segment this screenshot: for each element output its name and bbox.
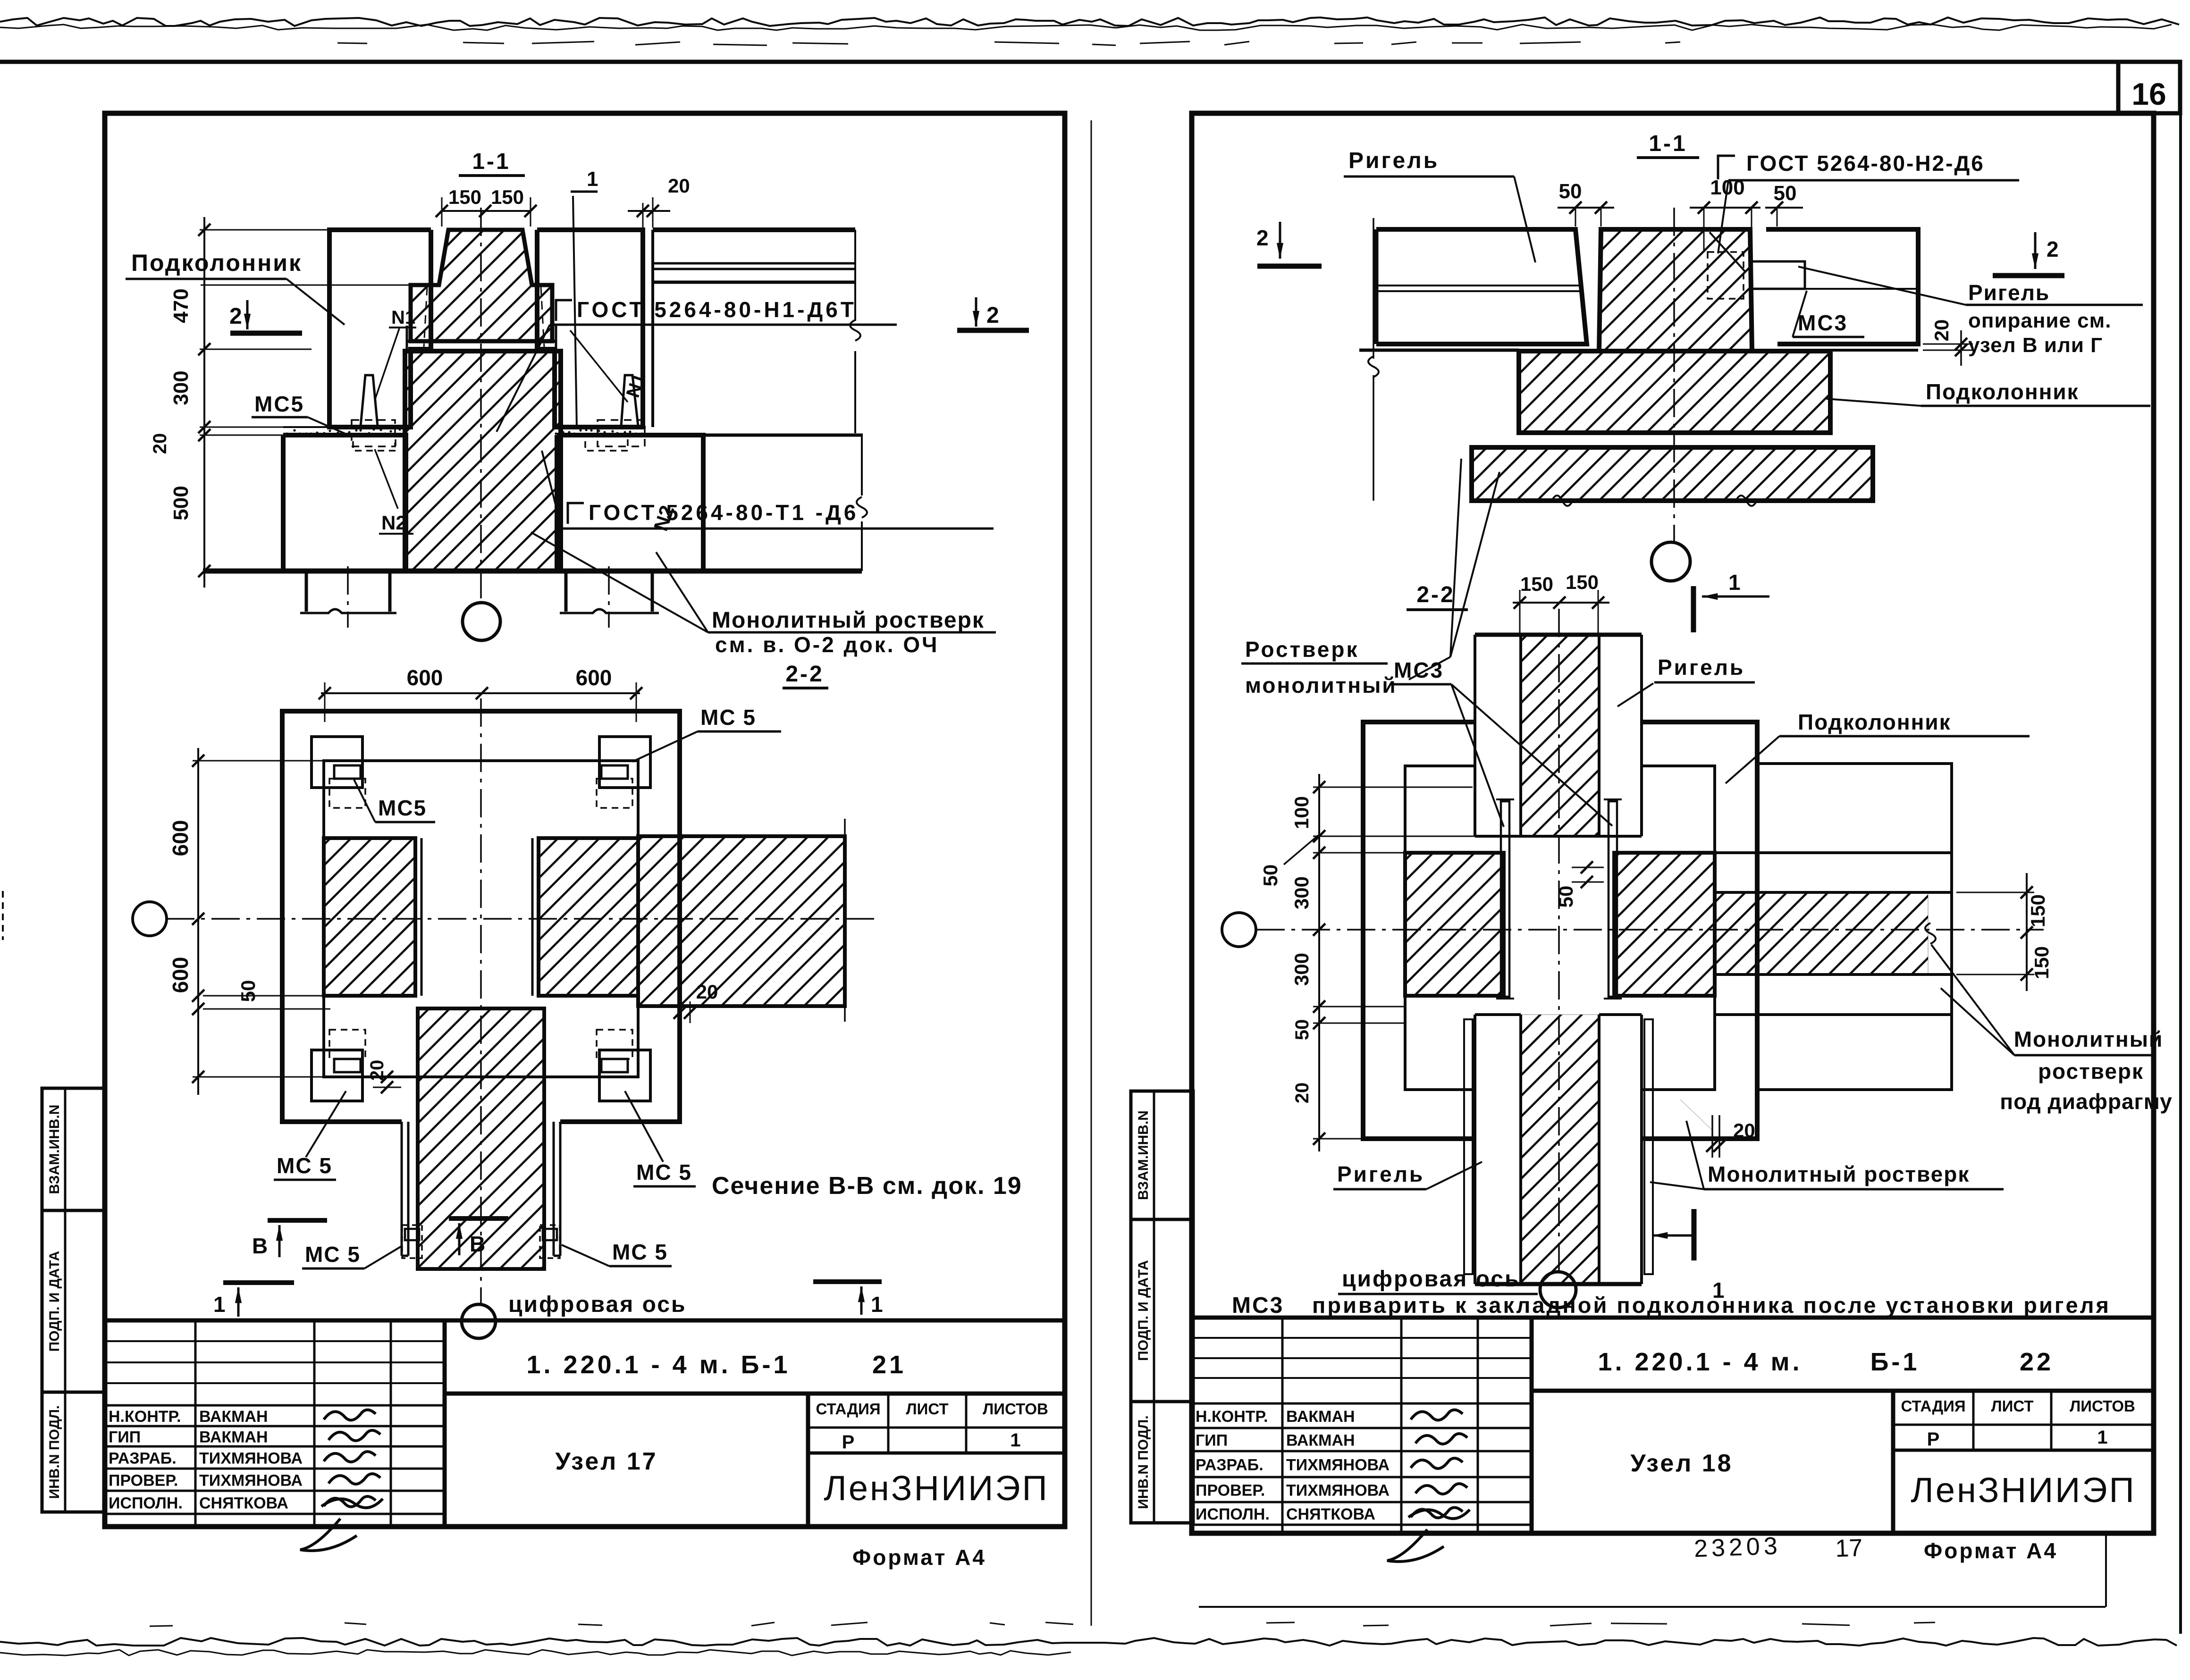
svg-text:Сечение В-В см. док. 19: Сечение В-В см. док. 19 [712,1172,1022,1200]
svg-text:2: 2 [1256,226,1269,250]
svg-text:ГИП: ГИП [109,1428,141,1446]
svg-text:ТИХМЯНОВА: ТИХМЯНОВА [199,1472,303,1490]
svg-text:50: 50 [1555,886,1577,908]
svg-text:РАЗРАБ.: РАЗРАБ. [1196,1456,1263,1474]
svg-text:2-2: 2-2 [1416,582,1455,607]
ригель левый (сечение) [1376,229,1587,344]
сварной шов ГОСТ 5264-80-Н2-Д6 [1718,156,1735,179]
линия подколонника под ригелем [1359,349,1519,352]
svg-text:150: 150 [491,186,524,208]
осевой кружок слева [1222,913,1256,947]
МС5 embed plate left [361,375,378,426]
размер 50 план [203,995,330,997]
svg-text:Р: Р [1927,1429,1940,1450]
sheet 2 drawing узел 18 разрез [1241,131,2150,697]
ригель правый горизонтальный (план) [1715,851,1952,854]
stadia list listov cells [808,1427,1065,1429]
svg-text:17: 17 [1835,1534,1863,1562]
закладная МС3 у колонны [1752,261,1805,289]
svg-text:ЛенЗНИИЭП: ЛенЗНИИЭП [824,1469,1049,1508]
svg-text:20: 20 [150,433,170,454]
node name cell [1891,1391,1895,1533]
svg-text:22: 22 [2020,1348,2054,1376]
svg-text:РАЗРАБ.: РАЗРАБ. [109,1450,177,1468]
svg-text:МС5: МС5 [254,392,304,416]
ригель средний (план, сечение) [539,838,638,996]
title block left grid [105,1340,445,1342]
svg-text:Подколонник: Подколонник [1926,379,2079,404]
sheet 2 title block [1192,1318,2154,1562]
bottom paper edge lines [0,1534,2177,1655]
размерная цепочка слева [1318,774,1320,1151]
title block left grid [1192,1337,1532,1339]
размер 600 600 план [321,692,640,694]
метка разреза 2 справа [2034,232,2037,269]
svg-text:2: 2 [2047,237,2059,261]
sheet 1 title block [105,1320,1065,1551]
svg-text:ВАКМАН: ВАКМАН [199,1428,268,1446]
sheet 2 side strip [1131,1091,1193,1523]
svg-text:1-1: 1-1 [1649,131,1687,156]
svg-text:Монолитный ростверк: Монолитный ростверк [712,608,985,633]
svg-text:см. в. О-2 док. ОЧ: см. в. О-2 док. ОЧ [715,632,939,657]
МС5 embed plate right [621,375,638,426]
метка 1 верхняя [1691,586,1696,632]
размер 20 справа [1923,344,1973,345]
размер 20 план лев [373,1076,401,1078]
пластины МС3 [1501,801,1509,997]
сварной шов ГОСТ 5264-80-Т1-Д6 [568,503,584,524]
грунтовка dotted beds [283,426,410,428]
svg-text:300: 300 [169,370,193,405]
скрытые грани стакана (пунктир) [424,287,427,347]
dim 150 150 column top [442,210,531,212]
стакан внутренний квадрат [324,761,638,1077]
svg-text:1-1: 1-1 [472,149,510,174]
svg-text:МС5: МС5 [378,796,427,820]
sheet 1 drawing узел 17 разрез [126,149,1029,688]
ригель нижний (план) [1475,1013,1521,1016]
ось колонны [1673,208,1675,541]
svg-text:Ригель: Ригель [1658,655,1745,680]
колонна shaft (hatched) [405,351,561,571]
осевой кружок [463,603,500,640]
svg-text:под диафрагму: под диафрагму [2000,1089,2172,1114]
svg-text:ТИХМЯНОВА: ТИХМЯНОВА [1286,1456,1390,1474]
svg-text:Б-1: Б-1 [1870,1348,1920,1376]
svg-text:ИНВ.N ПОДЛ.: ИНВ.N ПОДЛ. [47,1405,62,1499]
svg-text:Формат А4: Формат А4 [852,1545,986,1570]
svg-text:600: 600 [168,820,193,857]
svg-text:СНЯТКОВА: СНЯТКОВА [1286,1505,1375,1523]
svg-text:N1: N1 [391,307,415,328]
линия низа блоков [1405,852,1501,853]
svg-text:2: 2 [229,304,242,329]
svg-text:СНЯТКОВА: СНЯТКОВА [199,1495,288,1512]
ригель верхний (план) [1475,633,1642,637]
svg-text:150: 150 [1520,573,1553,595]
отметка верха стакана [201,285,439,286]
svg-text:1: 1 [587,168,598,191]
svg-text:Узел 18: Узел 18 [1630,1450,1733,1477]
svg-text:Подколонник: Подколонник [131,250,302,276]
svg-text:ВАКМАН: ВАКМАН [199,1408,268,1426]
svg-text:1: 1 [2097,1427,2107,1448]
sheet 1 side strip [42,1088,104,1512]
метка разреза 2 справа [975,297,977,327]
svg-text:1: 1 [1728,570,1741,595]
стеновая панель lines top right [653,227,855,232]
svg-text:ЛИСТ: ЛИСТ [1991,1397,2033,1415]
svg-text:МС 5: МС 5 [700,705,756,730]
svg-text:20: 20 [668,175,690,197]
оси план [166,918,880,920]
ростверк под диафрагму контур [1757,764,1952,1090]
svg-text:ТИХМЯНОВА: ТИХМЯНОВА [1286,1482,1390,1500]
осевой кружок слева [133,902,167,936]
torn paper top edge [0,17,2179,45]
svg-text:Н.КОНТР.: Н.КОНТР. [1196,1408,1268,1426]
svg-text:МС 5: МС 5 [636,1160,692,1184]
svg-text:цифровая ось: цифровая ось [508,1292,686,1317]
svg-text:ГОСТ 5264-80-Н2-Д6: ГОСТ 5264-80-Н2-Д6 [1746,151,1985,176]
svg-text:ПРОВЕР.: ПРОВЕР. [109,1472,178,1490]
svg-text:2: 2 [986,303,999,328]
svg-text:1: 1 [871,1292,883,1317]
svg-text:МС3: МС3 [1798,311,1848,335]
svg-text:ЛИСТ: ЛИСТ [906,1400,948,1418]
svg-text:СТАДИЯ: СТАДИЯ [816,1400,880,1418]
ось column axis [480,208,482,602]
svg-text:16: 16 [2131,76,2166,111]
оси план [1256,929,2044,931]
svg-text:Ригель: Ригель [1968,280,2050,305]
svg-text:50: 50 [237,980,259,1002]
метка 1 низ-лев [223,1280,294,1285]
подколонник (hatched) [1519,351,1830,433]
svg-text:Ригель: Ригель [1348,148,1439,173]
svg-text:600: 600 [168,957,193,993]
svg-text:ТИХМЯНОВА: ТИХМЯНОВА [199,1450,303,1468]
закладная МС5 верх-лев [312,737,362,788]
выносная линия слева [1373,218,1374,359]
right paper edge [2179,62,2182,1634]
sheet 2 план узла 18 [1222,571,2173,1318]
svg-text:20: 20 [367,1060,387,1081]
размер 20 план прав [679,1001,681,1023]
svg-text:20: 20 [696,981,718,1003]
svg-text:600: 600 [407,665,443,690]
колонна ствол (план) [418,1008,544,1269]
svg-text:50: 50 [1774,182,1797,205]
ростверк continues right [703,434,863,437]
svg-text:N2: N2 [381,512,407,534]
svg-text:ПОДП. И ДАТА: ПОДП. И ДАТА [47,1251,62,1352]
svg-text:150: 150 [2030,946,2053,979]
метка 1 нижняя [1692,1209,1697,1260]
закладные внизу ствола [402,1225,422,1258]
svg-text:21: 21 [872,1351,906,1379]
node name cell [806,1394,810,1527]
svg-text:ИСПОЛН.: ИСПОЛН. [1196,1505,1270,1523]
ростверк монолитный (hatched band) [1472,447,1873,501]
svg-text:ГОСТ 5264-80-Т1 -Д6: ГОСТ 5264-80-Т1 -Д6 [589,500,859,525]
svg-text:МС3: МС3 [1394,658,1444,682]
sheet 1 frame (Узел 17) [105,113,1065,1527]
свая left [305,571,308,612]
svg-text:150: 150 [448,186,481,208]
svg-text:1: 1 [1010,1430,1020,1451]
размер 20 внизу [1711,1115,1713,1158]
закладная МС5 низ-прав [599,1050,650,1101]
dim 20 joint gap top [642,203,644,227]
svg-text:монолитный: монолитный [1245,673,1397,697]
svg-text:ЛенЗНИИЭП: ЛенЗНИИЭП [1911,1470,2136,1510]
svg-text:Подколонник: Подколонник [1798,710,1951,734]
колонна trapezoid + flare (hatched) [411,230,552,341]
svg-text:ВЗАМ.ИНВ.N: ВЗАМ.ИНВ.N [47,1105,62,1194]
svg-text:500: 500 [169,486,193,520]
ригель поперечный левый (hatched) [1405,853,1504,996]
svg-text:ГОСТ 5264-80-Н1-Д6Т: ГОСТ 5264-80-Н1-Д6Т [577,297,857,322]
svg-text:ВАКМАН: ВАКМАН [1286,1432,1355,1450]
svg-text:СТАДИЯ: СТАДИЯ [1901,1397,1965,1415]
svg-text:1. 220.1 - 4 м.: 1. 220.1 - 4 м. [1598,1348,1802,1376]
svg-text:100: 100 [1710,176,1744,199]
осевой кружок внизу [1540,1272,1576,1308]
svg-text:МС3: МС3 [1232,1293,1284,1318]
svg-text:470: 470 [169,288,193,323]
svg-text:150: 150 [2027,894,2049,927]
svg-text:ЛИСТОВ: ЛИСТОВ [983,1400,1048,1418]
title block designation band [1530,1318,1534,1533]
ригель поперечный правый (hatched) [1614,853,1715,996]
ригель левый (план, сечение) [324,838,415,996]
svg-text:Формат А4: Формат А4 [1924,1538,2058,1563]
svg-text:Узел 17: Узел 17 [555,1448,657,1475]
scan seam between sheets [1091,120,1092,1626]
svg-text:ПРОВЕР.: ПРОВЕР. [1196,1482,1265,1500]
svg-text:приварить к закладной подколо: приварить к закладной подколонника после… [1312,1293,2111,1318]
размер 150 150 [1513,602,1609,604]
svg-text:ростверк: ростверк [2038,1059,2144,1084]
svg-text:МС 5: МС 5 [612,1240,668,1264]
размер 50 у оси [1572,867,1604,868]
svg-text:300: 300 [1290,953,1313,986]
svg-text:20: 20 [1930,319,1953,342]
подколонник right block (section) [537,230,643,427]
stadia list listov cells [1893,1424,2154,1426]
svg-text:Ригель: Ригель [1337,1162,1424,1186]
ростверк right block [557,435,703,571]
ригель правый (сечение) [1766,229,1918,344]
стенки стакана у ствола [401,1122,403,1256]
подколонник контур (план) [1363,722,1475,1139]
стакан внутренний (план) [1405,766,1475,1090]
svg-text:100: 100 [1290,796,1313,829]
svg-text:300: 300 [1290,876,1313,909]
svg-text:ВАКМАН: ВАКМАН [1286,1408,1355,1426]
svg-text:23203: 23203 [1693,1532,1782,1562]
svg-text:50: 50 [1292,1019,1313,1041]
sheet 2 frame (Узел 18) [1192,113,2154,1533]
опорная плита band [407,340,556,343]
title block outline [1192,1316,2154,1320]
svg-text:ГИП: ГИП [1196,1432,1228,1450]
svg-text:50: 50 [1559,180,1582,203]
title block designation band [443,1320,447,1527]
svg-text:Монолитный: Монолитный [2014,1027,2164,1051]
svg-text:цифровая ось: цифровая ось [1342,1267,1520,1292]
svg-text:Н.КОНТР.: Н.КОНТР. [109,1408,181,1426]
осевой кружок внизу [462,1304,496,1338]
svg-text:Р: Р [842,1432,855,1453]
svg-text:В: В [252,1234,268,1258]
sheet 1 план узла 17 [133,665,1022,1338]
svg-text:ПОДП. И ДАТА: ПОДП. И ДАТА [1136,1260,1151,1361]
подколонник left block (section) [329,230,431,427]
подколонник контур план [282,711,680,1122]
линия под правым ригелем [1830,349,1918,352]
вертикальная размерная цепочка слева [203,217,205,588]
svg-text:50: 50 [1259,865,1281,887]
svg-text:МС 5: МС 5 [277,1153,332,1178]
размерная цепочка 600 600 слева [197,748,199,1095]
метка 1 низ-прав [813,1279,882,1284]
svg-text:ВЗАМ.ИНВ.N: ВЗАМ.ИНВ.N [1136,1110,1151,1200]
svg-text:20: 20 [1733,1119,1755,1142]
метка В у ствола [449,1216,508,1221]
размер 150 150 справа [2026,873,2028,991]
svg-text:20: 20 [1292,1083,1313,1104]
title block outline [105,1319,1065,1323]
svg-text:опирание см.: опирание см. [1968,309,2111,332]
сварной шов ГОСТ 5264-80-Н1-Д6 [556,300,572,321]
svg-text:Монолитный ростверк: Монолитный ростверк [1708,1162,1970,1186]
ригель правый (план) [638,836,845,1006]
ростверк left block [283,435,406,571]
svg-text:МС 5: МС 5 [305,1242,361,1267]
svg-text:ЛИСТОВ: ЛИСТОВ [2070,1397,2135,1415]
колонна (сечение, hatched) [1599,229,1752,351]
left paper edge mark [2,891,4,940]
svg-text:узел В или Г: узел В или Г [1968,334,2103,357]
svg-text:Ростверк: Ростверк [1245,637,1359,662]
svg-text:1. 220.1 - 4 м. Б-1: 1. 220.1 - 4 м. Б-1 [527,1351,791,1379]
закладная МС5 низ-лев [312,1050,362,1101]
page number box [2118,62,2180,113]
section cut line 1 (top) [573,196,577,428]
svg-text:600: 600 [576,665,612,690]
закладная МС5 верх-прав [599,737,650,788]
top rule line [0,60,2180,64]
метка В слева [268,1218,327,1223]
svg-text:150: 150 [1566,571,1599,593]
свая right [564,571,568,612]
svg-text:ИНВ.N ПОДЛ.: ИНВ.N ПОДЛ. [1136,1415,1151,1509]
пластины МС3 нижнего ригеля [1464,1019,1473,1274]
svg-text:1: 1 [213,1292,226,1317]
svg-text:В: В [470,1232,485,1256]
svg-text:2-2: 2-2 [785,662,824,687]
svg-text:ИСПОЛН.: ИСПОЛН. [109,1495,183,1512]
осевой кружок [1651,542,1690,581]
